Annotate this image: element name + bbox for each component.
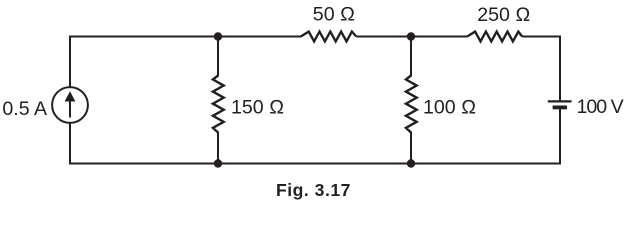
svg-text:100 Ω: 100 Ω <box>423 97 476 119</box>
wire bottom side <box>69 163 561 165</box>
wire stub resistor 100 bottom to node D <box>410 132 412 164</box>
current source arrow head <box>65 91 76 101</box>
svg-text:0.5 A: 0.5 A <box>2 98 48 120</box>
wire stub resistor 150 bottom to node C <box>217 132 219 164</box>
svg-text:Fig. 3.17: Fig. 3.17 <box>276 180 351 200</box>
wire top segment between R50 and node B <box>356 36 467 38</box>
wire left vertical below current source <box>69 123 71 165</box>
current source arrow shaft <box>69 100 71 118</box>
current source I1 0.5 A circle <box>52 87 88 123</box>
battery V1 short thick plate <box>553 106 567 110</box>
wire stub node B to resistor 100 top <box>410 37 412 77</box>
resistor 100 ohm zigzag <box>406 76 417 133</box>
node B top-right junction dot <box>407 32 415 40</box>
svg-text:50 Ω: 50 Ω <box>313 4 355 26</box>
node C bottom-left junction dot <box>214 159 222 167</box>
node A top-left junction dot <box>214 32 222 40</box>
wire left vertical above current source <box>69 36 71 88</box>
battery V1 long thin plate <box>548 100 572 102</box>
resistor 250 ohm zigzag <box>467 32 522 42</box>
wire right vertical above battery <box>559 36 561 101</box>
svg-text:150 Ω: 150 Ω <box>231 96 284 118</box>
wire top segment left (source to node A) <box>69 36 301 38</box>
wire stub node A to resistor 150 top <box>217 37 219 77</box>
svg-text:100 V: 100 V <box>577 96 624 118</box>
node D bottom-right junction dot <box>407 159 415 167</box>
wire top segment between R250 and right corner <box>522 36 561 38</box>
resistor 150 ohm zigzag <box>213 76 224 133</box>
wire right vertical below battery <box>559 108 561 165</box>
resistor 50 ohm zigzag <box>301 32 357 42</box>
svg-text:250 Ω: 250 Ω <box>477 4 530 26</box>
